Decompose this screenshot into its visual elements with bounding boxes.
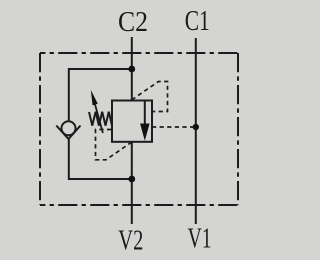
pilot line loop upper-right (from top port to right side) — [132, 82, 168, 112]
svg-text:V1: V1 — [188, 223, 212, 255]
valve assembly boundary bottom edge (dash-dot) — [40, 204, 238, 206]
svg-text:C2: C2 — [118, 6, 148, 38]
pilot line loop lower-left (from bottom port to spring side) — [96, 130, 132, 160]
wire: C2 main line lower segment — [131, 142, 133, 224]
svg-text:C1: C1 — [185, 5, 210, 37]
adjustability arrow head — [91, 90, 98, 106]
wire: check valve branch upper (junction to left and down) — [69, 69, 132, 121]
valve assembly boundary right edge (dash-dot) — [237, 53, 239, 205]
wire: check valve branch lower (down and back to junction) — [69, 139, 132, 180]
node junction bottom (C2 / check branch) — [128, 176, 135, 183]
svg-text:V2: V2 — [118, 225, 143, 257]
node junction top (C2 / check branch) — [128, 66, 135, 73]
spring (adjustable) — [89, 112, 112, 126]
relief valve flow arrow shaft — [144, 102, 146, 126]
relief valve element body (square) — [112, 101, 152, 142]
pilot line to C1 — [152, 126, 196, 128]
wire: C2 main line upper segment — [131, 37, 133, 101]
node junction pilot on C1 — [193, 124, 199, 130]
wire: C1 line — [195, 38, 197, 224]
valve assembly boundary top edge (dash-dot) — [40, 52, 238, 54]
check valve CV1 seat — [56, 126, 80, 140]
relief valve flow arrow head — [140, 124, 150, 141]
check valve CV1 ball — [62, 121, 76, 135]
adjustability arrow shaft — [95, 104, 103, 133]
valve assembly boundary left edge (dash-dot) — [39, 53, 41, 205]
